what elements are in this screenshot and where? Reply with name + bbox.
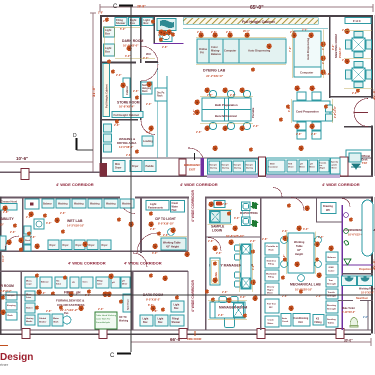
manager desk: [210, 302, 245, 318]
svg-text:2'-0": 2'-0": [316, 295, 322, 298]
cif door arc: [137, 233, 157, 253]
svg-text:2'-6": 2'-6": [46, 310, 52, 313]
login desk: [210, 211, 231, 224]
svg-text:Dryer: Dryer: [76, 245, 82, 247]
svg-text:Dryer: Dryer: [132, 165, 139, 168]
toilet sink unit 1: [342, 276, 357, 286]
svg-text:Steel Door: Steel Door: [356, 297, 368, 300]
formaldehyde left wall: [21, 271, 22, 330]
svg-text:Heating: Heating: [26, 317, 34, 320]
svg-text:Bench/Chemical: Bench/Chemical: [215, 114, 237, 118]
meeting room bottom wall: [329, 96, 371, 98]
svg-text:scope: scope: [26, 284, 33, 286]
svg-text:Tensile: Tensile: [328, 292, 336, 294]
svg-text:Card Preparation: Card Preparation: [296, 110, 319, 114]
svg-text:Sample: Sample: [234, 165, 242, 167]
svg-text:2'-6": 2'-6": [295, 88, 301, 91]
svg-text:Mantle: Mantle: [26, 320, 33, 323]
svg-text:BOD: BOD: [270, 164, 275, 166]
dark room bottom wall: [102, 62, 136, 64]
sustainability right wall: [22, 198, 24, 251]
working table 42 box: [161, 238, 186, 250]
mech working table: [288, 233, 314, 273]
computer desk below: [294, 67, 321, 77]
washing box 1: [56, 199, 70, 208]
store room right wall: [156, 63, 159, 158]
svg-text:Spin Dryer: Spin Dryer: [128, 299, 130, 310]
mech left equipment column: [265, 243, 279, 327]
svg-text:Portable io: Portable io: [267, 245, 279, 248]
lower building bottom inner wall: [0, 330, 371, 331]
wc basin: [160, 33, 172, 42]
svg-text:Incubator: Incubator: [269, 166, 279, 169]
svg-text:Computer: Computer: [300, 71, 314, 75]
lavender strip left: [207, 174, 258, 178]
svg-text:2'-6": 2'-6": [363, 317, 368, 319]
svg-text:Grease Hood: Grease Hood: [1, 200, 18, 204]
svg-text:Crash: Crash: [172, 203, 179, 205]
svg-text:FORMALDEHYDE &: FORMALDEHYDE &: [56, 299, 85, 303]
svg-text:4'-10"X3'-3": 4'-10"X3'-3": [342, 311, 355, 314]
svg-text:4' WIDE CORRIDOR: 4' WIDE CORRIDOR: [56, 182, 94, 187]
official desk chair: [351, 164, 361, 169]
right exterior wall upper: [371, 15, 373, 177]
svg-text:Auto Dispensing: Auto Dispensing: [306, 37, 310, 60]
card preparation table: [293, 101, 330, 121]
login copier: [214, 201, 225, 208]
svg-text:29'-8": 29'-8": [137, 5, 146, 9]
figure glyphs upper left: [105, 17, 109, 21]
login door arc: [208, 238, 221, 251]
sink unit top: [25, 199, 39, 209]
wc vestibule door arc upper: [141, 46, 158, 63]
svg-text:2'-6": 2'-6": [296, 133, 302, 136]
svg-text:Filing: Filing: [268, 264, 274, 266]
bottom column 2: [99, 329, 107, 339]
svg-text:2'-0": 2'-0": [98, 308, 104, 311]
svg-text:Dryer: Dryer: [63, 245, 69, 247]
form left column boxes: [25, 291, 35, 325]
formaldehyde label: [56, 299, 85, 313]
svg-text:TDS: TDS: [288, 164, 293, 166]
svg-text:Cabinet: Cabinet: [126, 86, 129, 95]
svg-text:Filling: Filling: [315, 321, 323, 324]
svg-text:9'-0": 9'-0": [143, 57, 149, 60]
svg-text:Meter: Meter: [267, 292, 273, 295]
svg-text:7'-0"X18'-10": 7'-0"X18'-10": [0, 223, 5, 227]
svg-text:2'-6": 2'-6": [352, 92, 358, 95]
wet lab label: [67, 219, 85, 228]
balance box: [42, 199, 54, 208]
dimension guide lines: [103, 26, 372, 320]
male toilet label: [342, 307, 355, 314]
svg-text:8'-0"X16'-10": 8'-0"X16'-10": [158, 222, 175, 226]
svg-text:DRYER ROOM: DRYER ROOM: [0, 284, 14, 288]
sample login label: [211, 225, 224, 233]
svg-text:10'-4"X20'-10": 10'-4"X20'-10": [295, 288, 313, 292]
conference bottom wall: [342, 265, 373, 266]
top counter: [197, 39, 286, 63]
svg-text:4' WIDE CORRIDOR: 4' WIDE CORRIDOR: [191, 280, 195, 312]
sample keeping labels: [7, 295, 16, 317]
svg-text:Full Height Cabinet: Full Height Cabinet: [242, 20, 276, 24]
vertical corridor right wall: [205, 198, 207, 330]
svg-text:Balance: Balance: [328, 257, 337, 259]
conference label: [344, 228, 375, 237]
lavender strip right: [266, 174, 340, 178]
svg-text:2'-8": 2'-8": [3, 211, 9, 214]
svg-text:Speedy: Speedy: [331, 162, 339, 164]
mech table chairs: [281, 237, 322, 282]
conference door arc: [342, 199, 350, 207]
washing drying label: [117, 137, 136, 149]
svg-text:Worktable: Worktable: [266, 273, 277, 276]
section line horizontal: [0, 294, 373, 296]
svg-text:2'-8": 2'-8": [208, 240, 214, 243]
svg-text:C: C: [113, 4, 118, 10]
svg-text:Full Height Cabinet: Full Height Cabinet: [114, 113, 140, 117]
svg-text:Washing: Washing: [106, 204, 116, 206]
svg-text:Crock: Crock: [282, 321, 289, 323]
svg-text:Dryer: Dryer: [50, 245, 56, 247]
bottom column 5: [336, 329, 344, 339]
upper building bottom inner wall: [102, 158, 371, 159]
dark room light box right: [171, 301, 184, 312]
svg-text:2'-6": 2'-6": [222, 291, 228, 294]
left room wall: [21, 271, 22, 330]
filing shower box: [115, 18, 127, 26]
svg-text:Meter: Meter: [288, 166, 294, 169]
section C bottom marker: [110, 353, 131, 360]
upper building bottom outer wall: [100, 176, 373, 178]
washing box 2: [72, 199, 86, 208]
pier right of emergency exit: [179, 159, 186, 175]
dryer box 4: [87, 240, 98, 250]
svg-text:pH: pH: [310, 164, 313, 166]
svg-text:2'-0": 2'-0": [253, 125, 259, 128]
spin dryer vertical box: [123, 294, 131, 312]
wc room left wall: [154, 16, 156, 44]
svg-text:2'-0": 2'-0": [282, 230, 288, 233]
svg-text:3'-0": 3'-0": [152, 252, 158, 255]
green arrows bottom: [251, 220, 259, 227]
svg-text:DARK ROOM: DARK ROOM: [122, 39, 143, 43]
title red dash: [0, 345, 8, 346]
svg-text:Portable: Portable: [251, 107, 255, 118]
wet lab left rack boxes: [24, 226, 31, 251]
white pier mid: [259, 157, 266, 176]
svg-text:Strength: Strength: [327, 308, 337, 311]
svg-text:Dyeing: Dyeing: [210, 168, 218, 170]
svg-text:2'-8": 2'-8": [262, 238, 268, 241]
drawing wc bottom wall: [316, 222, 342, 223]
svg-text:3'-0": 3'-0": [46, 222, 52, 225]
svg-text:WET LAB: WET LAB: [67, 219, 83, 223]
svg-text:Male Toilet: Male Toilet: [342, 307, 355, 310]
svg-text:water Bath For: water Bath For: [96, 318, 111, 321]
light fastness box: [146, 201, 169, 211]
svg-text:Working Table: Working Table: [163, 241, 181, 245]
svg-text:41'-3"X21'-6": 41'-3"X21'-6": [205, 74, 224, 78]
dyeing lab label: [203, 69, 226, 79]
svg-text:2'-8": 2'-8": [222, 203, 228, 206]
svg-text:Juice: Juice: [26, 297, 32, 299]
right exterior wall lower: [371, 197, 373, 334]
meeting table 2: [346, 62, 372, 88]
bottom column 4: [257, 329, 265, 339]
dark room lower left wall: [131, 271, 133, 330]
svg-text:W.C: W.C: [146, 52, 151, 56]
svg-text:DRYING AREA: DRYING AREA: [117, 141, 136, 145]
svg-text:Loading: Loading: [143, 140, 153, 143]
full height cabinet hatch band: [183, 18, 318, 25]
svg-text:Washing: Washing: [58, 204, 68, 206]
svg-text:Working Room: Working Room: [359, 288, 375, 291]
svg-text:2'-6": 2'-6": [310, 88, 316, 91]
cif stool: [168, 229, 175, 236]
top exterior wall: [100, 15, 373, 17]
svg-text:Meter: Meter: [268, 322, 274, 325]
dryer box: [130, 161, 142, 172]
svg-text:Unit: Unit: [298, 321, 303, 324]
svg-text:3'-0": 3'-0": [303, 228, 309, 231]
svg-text:4' WIDE CORRIDOR: 4' WIDE CORRIDOR: [191, 190, 195, 222]
svg-text:14'-3"X16'-10": 14'-3"X16'-10": [67, 224, 85, 228]
right dimension line upper: [373, 15, 375, 176]
svg-text:Disney: Disney: [267, 287, 275, 289]
toilet partition vertical: [368, 301, 369, 330]
entry vestibule bottom wall: [344, 126, 371, 128]
meeting table 1: [346, 32, 372, 58]
dryer box 5: [100, 240, 111, 250]
svg-text:Sample: Sample: [222, 165, 230, 167]
light box top 1: [129, 18, 140, 26]
svg-text:GSM: GSM: [329, 267, 334, 269]
svg-text:Dryer: Dryer: [102, 245, 108, 247]
svg-text:2'-6": 2'-6": [30, 236, 36, 239]
dry pa rack: [155, 88, 167, 101]
svg-text:Auto: Auto: [282, 317, 288, 320]
washing machines column: [104, 124, 112, 152]
svg-text:3'-0": 3'-0": [234, 217, 240, 220]
mech door arc top2: [273, 188, 282, 197]
washing box 3: [88, 199, 102, 208]
sustainability door arc: [5, 236, 19, 250]
store room right wall lower segment: [140, 81, 142, 120]
svg-text:Desk: Desk: [362, 159, 369, 162]
small table corridor band: [256, 161, 274, 171]
light box top 2: [142, 18, 153, 26]
wet lab right wall: [140, 198, 142, 253]
left room label: [0, 284, 14, 288]
svg-text:Dyeing: Dyeing: [222, 168, 230, 170]
svg-text:PH: PH: [200, 51, 204, 55]
toilet fixture: [350, 317, 358, 327]
svg-text:Box: Box: [105, 32, 110, 36]
svg-text:CIF TO LIGHT: CIF TO LIGHT: [155, 217, 176, 221]
svg-text:Meter: Meter: [310, 166, 316, 169]
conference green marks: [344, 213, 349, 218]
svg-text:Oven: Oven: [83, 282, 89, 284]
pier mid corridor: [340, 157, 348, 176]
full height cabinet store bottom: [112, 112, 143, 118]
svg-text:Rack: Rack: [142, 91, 148, 93]
orbital shaker box: [38, 314, 50, 326]
svg-text:Balance: Balance: [211, 52, 222, 56]
horizontal inner corridor top wall: [0, 251, 188, 252]
lower building top wall: [0, 197, 120, 199]
light box left 1: [104, 27, 115, 37]
svg-text:CIF TO: CIF TO: [119, 317, 127, 319]
svg-text:F H C: F H C: [353, 19, 362, 23]
chairs card prep: [297, 92, 321, 139]
svg-text:Mixing-: Mixing-: [211, 49, 220, 53]
svg-text:31'-4": 31'-4": [2, 254, 5, 262]
svg-text:Table: Table: [296, 244, 303, 248]
svg-text:31'-0": 31'-0": [91, 86, 96, 97]
svg-text:LOGIN: LOGIN: [212, 229, 223, 233]
toilet partition wall left: [338, 300, 353, 301]
svg-text:Water: Water: [172, 206, 178, 209]
svg-text:4' WIDE CORRIDOR: 4' WIDE CORRIDOR: [68, 261, 106, 266]
right equipment group: [267, 158, 331, 174]
svg-text:Shower: Shower: [116, 21, 125, 25]
official desk nook lines: [346, 150, 371, 157]
svg-text:4' WIDE CORRIDOR: 4' WIDE CORRIDOR: [180, 182, 218, 187]
svg-text:2'-6": 2'-6": [218, 314, 224, 317]
svg-text:C: C: [110, 353, 115, 359]
svg-text:5'-0": 5'-0": [120, 28, 126, 31]
figure glyphs card prep: [294, 85, 299, 91]
svg-text:Tear: Tear: [329, 280, 334, 282]
dark room label: [122, 39, 143, 48]
loading box: [142, 136, 153, 146]
svg-text:REPORTING: REPORTING: [240, 211, 259, 215]
svg-text:Shaker: Shaker: [39, 322, 46, 324]
svg-text:Meter: Meter: [122, 283, 128, 286]
drawing wc left wall: [316, 198, 317, 222]
mech door arc top: [291, 198, 304, 211]
svg-text:Keeping: Keeping: [7, 305, 16, 307]
svg-text:DYEING LAB: DYEING LAB: [203, 69, 226, 73]
k3 filling box: [313, 315, 324, 326]
svg-text:7'-0": 7'-0": [289, 46, 292, 52]
wet lab stool: [34, 219, 44, 229]
svg-text:Orbital: Orbital: [39, 317, 46, 320]
svg-text:22'-1"x10'-2": 22'-1"x10'-2": [60, 308, 79, 312]
svg-text:2'-6": 2'-6": [311, 133, 317, 136]
svg-text:2'-8": 2'-8": [162, 46, 168, 49]
conference bottom wall: [342, 273, 373, 274]
svg-text:Working: Working: [119, 321, 129, 323]
svg-text:2'-6": 2'-6": [60, 212, 66, 215]
svg-text:2'-6": 2'-6": [85, 294, 91, 297]
deputy manager bottom wall: [206, 295, 261, 296]
store shelf column: [123, 78, 130, 98]
conference table: [362, 200, 373, 256]
left exterior wall lower: [0, 197, 2, 334]
emergency exit door arc: [188, 148, 203, 158]
svg-text:EXIT: EXIT: [189, 168, 196, 172]
chairs around bath table: [209, 90, 250, 129]
cif to working label: [119, 317, 129, 323]
svg-text:SUSTAINABILITY: SUSTAINABILITY: [0, 217, 15, 221]
grease hood box: [0, 204, 17, 211]
svg-text:Conditioning: Conditioning: [294, 317, 309, 320]
svg-text:WC: WC: [326, 209, 330, 212]
toilet sink unit 2: [358, 276, 373, 286]
crash water plait box: [171, 201, 185, 213]
svg-text:1'-6": 1'-6": [325, 73, 331, 76]
svg-text:Washing: Washing: [90, 204, 100, 206]
svg-text:water: water: [97, 283, 102, 286]
svg-text:PH/go: PH/go: [97, 281, 104, 283]
bottom column 1: [22, 329, 30, 339]
left exterior wall upper: [100, 15, 102, 177]
svg-text:Auto Dispensing: Auto Dispensing: [248, 49, 271, 53]
cif to light label: [155, 217, 176, 226]
svg-text:5'X3': 5'X3': [362, 163, 368, 165]
svg-text:Meter: Meter: [332, 167, 338, 170]
manager chairs: [219, 297, 238, 328]
deputy left cabinet: [210, 258, 220, 285]
dyeing west boundary line: [166, 76, 168, 157]
reporting unit upper: [242, 202, 251, 211]
washing box 4: [104, 199, 118, 208]
corridor left top wall: [0, 172, 100, 174]
horizontal inner corridor bottom wall: [0, 271, 188, 272]
svg-text:Light: Light: [150, 202, 156, 206]
svg-text:14'-0"X8'-0": 14'-0"X8'-0": [119, 145, 134, 149]
svg-text:Full Test: Full Test: [267, 303, 276, 306]
left lower dimension line: [0, 161, 93, 163]
auto crock box: [281, 314, 291, 327]
svg-text:2'-0": 2'-0": [250, 240, 256, 243]
mechanical lab label: [290, 283, 321, 292]
extra figs scatter: [159, 37, 163, 41]
conference left purple wall: [342, 205, 343, 330]
pier purple at emergency exit: [201, 158, 205, 176]
svg-text:Sending: Sending: [327, 319, 336, 321]
svg-text:3'-0": 3'-0": [283, 254, 286, 260]
svg-text:7'-0": 7'-0": [332, 107, 335, 113]
svg-text:Sample: Sample: [246, 165, 254, 167]
top dimension line: [100, 4, 373, 12]
svg-text:Dryer: Dryer: [89, 245, 95, 247]
official desk: [349, 153, 370, 165]
svg-text:Table Head Shelving: Table Head Shelving: [96, 315, 117, 317]
svg-text:3'-0": 3'-0": [240, 296, 246, 299]
svg-text:5'-0": 5'-0": [302, 29, 308, 32]
svg-text:2'-6": 2'-6": [216, 252, 222, 255]
svg-text:Light: Light: [105, 28, 111, 32]
door arc store room bottom: [141, 121, 155, 135]
deputy chairs: [235, 245, 241, 287]
store room label: [117, 100, 140, 108]
sample login bottom wall: [206, 237, 261, 238]
svg-text:3'-0": 3'-0": [125, 55, 131, 58]
right dimension line lower: [373, 197, 375, 334]
rotated auto dispensing desk: [294, 31, 321, 67]
svg-text:Solut: Solut: [56, 283, 61, 286]
bottom column 3: [179, 329, 187, 339]
svg-text:2'-6": 2'-6": [133, 90, 139, 93]
svg-text:Box: Box: [143, 321, 148, 324]
svg-text:Washing: Washing: [74, 204, 84, 206]
svg-text:Sample: Sample: [210, 165, 218, 167]
svg-text:MECHANICAL LAB: MECHANICAL LAB: [290, 283, 321, 287]
svg-text:9'X12'-6": 9'X12'-6": [338, 46, 342, 58]
